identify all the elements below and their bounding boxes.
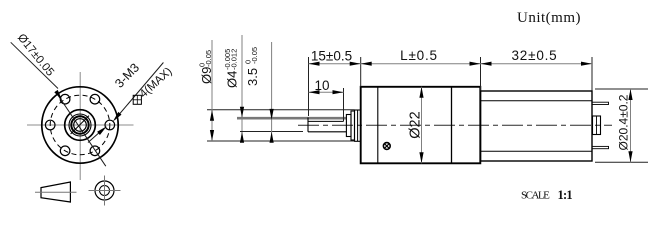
dimension Ø9 extension lines [207,110,355,141]
side view main center line [298,124,612,126]
dimension Ø17±0.05 leader and line [11,42,106,166]
svg-text:Ø20.4±0.2: Ø20.4±0.2 [617,94,631,150]
motor body [481,91,593,161]
dimension Ø4 line and arrows [240,35,303,143]
gearbox body [361,87,481,164]
dimension 3.5 line and arrows [270,42,274,143]
svg-text:SCALE: SCALE [521,190,550,202]
dimension Ø20.4±0.2 extension lines [595,89,648,162]
scale note [521,188,572,202]
motor end boss [593,116,601,135]
svg-text:Unit(mm): Unit(mm) [517,10,581,26]
extension lines for top dimensions [309,57,593,116]
dimension line 15 / L / 32 [309,62,593,66]
svg-text:L±0.5: L±0.5 [400,48,438,63]
dimension 10 (shaft flat) [309,78,344,120]
gearbox screw [383,143,390,150]
projection symbol cone [35,182,77,202]
svg-text:Ø4: Ø4 [225,71,240,88]
dimension text 32±0.5 [512,48,558,63]
svg-text:15±0.5: 15±0.5 [311,49,352,64]
dimension text L±0.5 [400,48,438,63]
svg-text:-0.012: -0.012 [230,49,239,70]
svg-text:3.5: 3.5 [245,68,260,86]
motor terminal pin top [592,102,609,104]
svg-text:Ø22: Ø22 [408,111,424,138]
dimension Ø22 [408,87,424,164]
label Ø4 -0.005/-0.012 [223,49,240,88]
front view bolt circle Ø17 (dashed) [50,95,110,155]
label Ø9 0/-0.05 [198,50,215,84]
label 3-M3 [112,61,142,91]
svg-text:-0.05: -0.05 [204,50,213,67]
front view 6 mounting holes 3-M3 [45,94,114,155]
dimension text 15±0.5 [311,49,352,64]
svg-text:1:1: 1:1 [558,188,573,202]
front view motor outline circle Ø22 [42,87,118,163]
front view center lines [27,72,134,180]
front view shaft boss concentric circles [65,110,96,141]
svg-text:Ø9: Ø9 [199,67,214,84]
title Unit(mm) [517,10,581,26]
leader arrow into hole (3-M3 callout) [88,63,163,143]
label 3.5 0/-0.05 [244,47,261,86]
svg-text:32±0.5: 32±0.5 [512,48,558,63]
label depth-glyph 4(MAX) [133,65,175,104]
svg-text:-0.05: -0.05 [250,47,259,64]
output shaft [237,118,346,132]
shaft collar steps [346,110,360,141]
projection symbol end view circles [89,176,121,206]
dimension text Ø17±0.05 [15,32,56,79]
dimension Ø9 line and arrows [210,40,214,141]
motor terminal pin bottom [592,146,609,148]
dimension Ø20.4±0.2 line [617,89,633,162]
svg-text:10: 10 [314,78,329,93]
